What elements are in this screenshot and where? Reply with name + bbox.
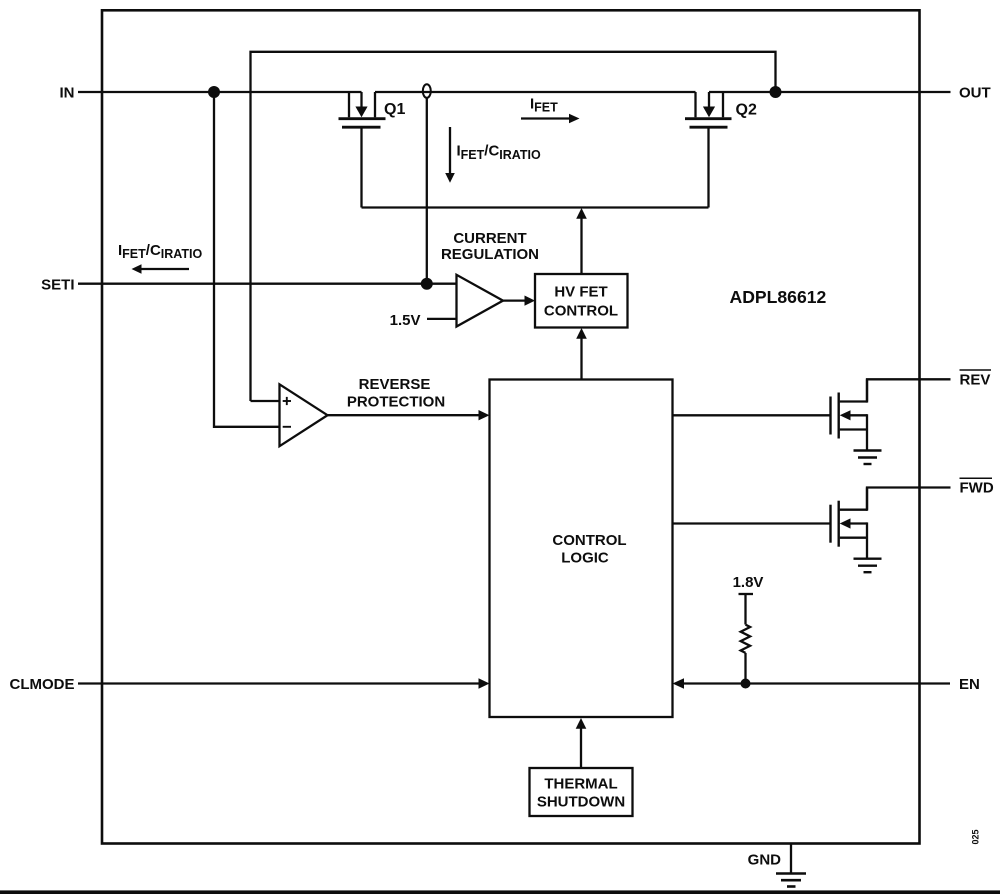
- arrow HV FET control to gate bus: [580, 218, 582, 274]
- node EN junction dot: [741, 679, 751, 689]
- arrow IFET direction: [521, 117, 569, 119]
- node SETI junction dot: [421, 278, 433, 290]
- svg-text:REVERSE: REVERSE: [359, 376, 431, 393]
- wire Q2 drain to OUT: [709, 91, 951, 93]
- svg-text:PROTECTION: PROTECTION: [347, 394, 445, 411]
- svg-text:THERMAL: THERMAL: [544, 776, 617, 793]
- svg-text:LOGIC: LOGIC: [561, 550, 609, 567]
- wire OUT sense top loop: [251, 52, 776, 401]
- svg-text:CURRENT: CURRENT: [453, 230, 526, 247]
- block CONTROL LOGIC: [490, 380, 673, 718]
- svg-text:CONTROL: CONTROL: [552, 532, 626, 549]
- arrow IFET/CIRATIO left: [141, 268, 189, 270]
- arrow thermal shutdown to control logic: [580, 729, 582, 769]
- node IN junction dot: [208, 86, 220, 98]
- svg-text:OUT: OUT: [959, 85, 991, 102]
- svg-text:ADPL86612: ADPL86612: [730, 287, 827, 307]
- svg-text:CLMODE: CLMODE: [10, 676, 75, 693]
- wire FWD FET drain to pin: [867, 488, 951, 510]
- wire Q1 source to Q2 left: [375, 91, 696, 93]
- svg-text:025: 025: [971, 829, 981, 844]
- svg-text:1.5V: 1.5V: [390, 312, 421, 329]
- transistor REV FET: [831, 379, 868, 450]
- svg-text:Q1: Q1: [384, 101, 405, 118]
- ground REV: [854, 451, 882, 465]
- block HV FET CONTROL: [535, 274, 628, 328]
- wire comparator plus input: [251, 400, 281, 402]
- svg-text:FWD: FWD: [960, 480, 994, 497]
- transistor FWD FET: [831, 488, 868, 559]
- arrow EN to control logic: [684, 682, 950, 684]
- node sense tap ring: [423, 84, 431, 98]
- op-amp current regulation: [457, 275, 504, 327]
- svg-text:GND: GND: [748, 851, 782, 868]
- wire IN sense to comparator minus: [214, 92, 280, 427]
- svg-text:HV FET: HV FET: [554, 283, 607, 300]
- transistor Q2: [685, 92, 732, 208]
- svg-text:SETI: SETI: [41, 276, 74, 293]
- wire sense tap down to SETI: [426, 98, 428, 284]
- wire control logic to FWD FET gate: [673, 522, 831, 524]
- wire GND stub: [790, 844, 792, 874]
- arrow amp out to HV FET control: [503, 299, 525, 301]
- block THERMAL SHUTDOWN: [530, 768, 633, 816]
- arrow IFET/CIRATIO down: [449, 127, 451, 173]
- transistor Q1: [339, 92, 386, 208]
- wire REV FET drain to pin: [867, 379, 951, 401]
- ground FWD: [854, 559, 882, 573]
- arrow comparator to control logic: [328, 414, 479, 416]
- ground GND symbol: [776, 874, 806, 887]
- arrow control logic to HV FET control: [580, 339, 582, 380]
- wire control logic to REV FET gate: [673, 414, 831, 416]
- svg-text:CONTROL: CONTROL: [544, 302, 618, 319]
- wire IN to Q1 drain: [78, 91, 362, 93]
- arrow CLMODE to control logic: [78, 682, 479, 684]
- resistor R 1.8V pull-up: [739, 594, 754, 684]
- svg-text:REGULATION: REGULATION: [441, 246, 539, 263]
- svg-text:1.8V: 1.8V: [733, 574, 764, 591]
- node OUT junction dot: [770, 86, 782, 98]
- svg-text:REV: REV: [960, 372, 991, 389]
- op-amp reverse protection comparator: [280, 384, 328, 446]
- wire SETI: [78, 283, 457, 285]
- svg-text:EN: EN: [959, 676, 980, 693]
- svg-text:Q2: Q2: [736, 102, 757, 119]
- comparator minus sign: [283, 426, 291, 428]
- wire FET gate bus: [362, 206, 709, 208]
- comparator plus sign: [283, 400, 291, 402]
- chip boundary box: [102, 10, 920, 843]
- svg-text:IN: IN: [60, 85, 75, 102]
- svg-text:SHUTDOWN: SHUTDOWN: [537, 794, 625, 811]
- wire 1.5V input: [427, 318, 457, 320]
- page footer rule: [0, 890, 1000, 894]
